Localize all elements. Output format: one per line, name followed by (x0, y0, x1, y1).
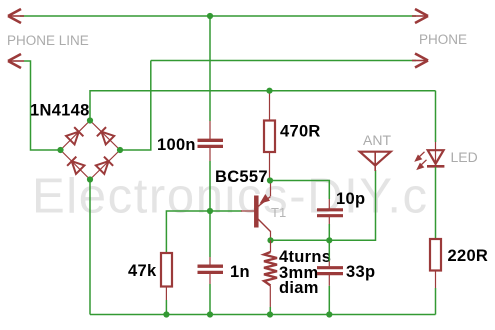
capacitor C2 1n (198, 266, 224, 272)
wire 33p bottom (328, 274, 330, 286)
diode D2 top-right (97, 127, 115, 145)
wire LED riser (435, 91, 437, 142)
wire LED to 220R (435, 167, 437, 239)
LED D5 (427, 150, 444, 168)
resistor R2 470R (269, 91, 271, 121)
wire 100n down to base node (209, 148, 211, 161)
svg-text:1n: 1n (230, 263, 250, 281)
junction dot emitter (267, 177, 273, 183)
svg-text:T1: T1 (271, 205, 286, 220)
wire bridge top up and across to LED corner (90, 91, 436, 121)
junction dot bridge top (+) (87, 117, 93, 123)
svg-text:PHONE: PHONE (419, 32, 467, 47)
wire bridge right to second rail riser (120, 61, 151, 151)
wire bottom rail (90, 314, 436, 316)
wire coil top (270, 240, 272, 252)
junction dot top rail (207, 13, 213, 19)
svg-text:BC557: BC557 (215, 168, 268, 186)
wire emitter node to 10p (270, 181, 329, 200)
svg-text:LED: LED (451, 149, 478, 165)
diode D1 top-left (66, 127, 84, 145)
wire 33p top (328, 240, 330, 261)
wire top rail (20, 15, 416, 17)
junction dot 10p bottom (326, 237, 332, 243)
resistor R1 47k (161, 253, 172, 287)
svg-text:diam: diam (279, 279, 319, 297)
wire second rail right (151, 60, 416, 62)
svg-text:ANT: ANT (363, 132, 391, 148)
junction dot 470R top (266, 88, 272, 94)
wire 47k bottom (165, 287, 167, 301)
svg-text:33p: 33p (346, 263, 375, 281)
junction dot bridge bottom (-) (87, 176, 93, 182)
arrow left second (8, 54, 24, 68)
wire top rail down to 100n (209, 16, 211, 121)
arrow right top (412, 9, 428, 23)
svg-text:1N4148: 1N4148 (30, 102, 90, 120)
wire 1n bottom (209, 273, 211, 284)
wire coil bottom (269, 286, 271, 308)
svg-text:PHONE LINE: PHONE LINE (7, 33, 89, 48)
arrow right second (412, 54, 428, 68)
wire collector line to antenna riser (271, 170, 376, 240)
diode bridge edges (61, 121, 121, 180)
wire red stub to base (241, 210, 255, 212)
junction dot rail coil (267, 311, 273, 317)
capacitor C1 100n (198, 140, 224, 146)
LED arrows (416, 152, 427, 169)
svg-text:470R: 470R (280, 123, 321, 141)
junction dot base node (207, 208, 213, 214)
wire bridge bottom down to ground rail (89, 180, 91, 315)
junction dot bridge right (AC) (117, 147, 123, 153)
svg-text:100n: 100n (157, 136, 196, 154)
junction dot collector (267, 237, 273, 243)
arrow left top (8, 9, 24, 23)
junction dot rail 47k (163, 311, 169, 317)
junction dot bridge left (AC) (57, 147, 63, 153)
junction dot rail 1n (207, 311, 213, 317)
wire left drop from second rail (24, 61, 61, 150)
diode D3 bottom-left (67, 157, 85, 175)
resistor R3 220R (430, 239, 441, 271)
wire 220R bottom (435, 271, 437, 289)
coil L1 4 turns (264, 252, 277, 286)
svg-text:10p: 10p (336, 190, 365, 208)
diode D4 bottom-right (95, 157, 113, 175)
transistor Q1 BC557 (256, 181, 270, 241)
wire base line (166, 211, 242, 253)
capacitor C4 33p (317, 268, 343, 274)
antenna ANT (360, 152, 391, 171)
svg-text:220R: 220R (448, 247, 489, 265)
wire 10p down (328, 217, 330, 224)
svg-text:47k: 47k (128, 262, 157, 280)
capacitor C3 10p (317, 210, 343, 216)
junction dot rail 33p (326, 311, 332, 317)
